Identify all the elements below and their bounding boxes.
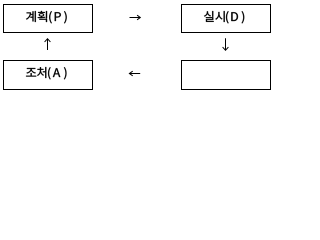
- glyph (: [49, 11, 52, 23]
- PDCA cycle diagram: [0, 0, 275, 94]
- glyph 실: [204, 11, 214, 22]
- label 조처(A): [26, 67, 66, 79]
- glyph A: [53, 68, 60, 77]
- glyph D: [231, 12, 238, 21]
- glyph 처: [37, 67, 46, 78]
- glyph ): [242, 11, 245, 23]
- glyph P: [55, 12, 61, 21]
- glyph (: [226, 11, 229, 23]
- arrow left (Check to Act): [129, 71, 140, 76]
- glyph ): [64, 11, 67, 23]
- glyph 시: [215, 11, 224, 22]
- glyph 계: [26, 11, 36, 22]
- arrow up (Act to Plan): [45, 39, 51, 50]
- box Act 조처(A): [4, 61, 93, 90]
- arrow down (below Do): [223, 38, 229, 50]
- label 계획(P): [26, 11, 67, 23]
- box Do 실시(D): [182, 5, 271, 33]
- glyph ): [64, 67, 67, 79]
- arrow right (Plan to Do): [130, 15, 141, 20]
- glyph 획: [38, 11, 47, 22]
- box Plan 계획(P): [4, 5, 93, 33]
- box Check (empty): [182, 61, 271, 90]
- glyph 조: [26, 68, 36, 76]
- glyph (: [48, 67, 50, 79]
- label 실시(D): [204, 11, 244, 23]
